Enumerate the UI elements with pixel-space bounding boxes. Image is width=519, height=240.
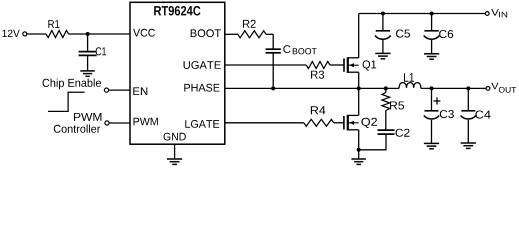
wire BOOT pin to R2	[225, 33, 238, 35]
label R4	[311, 106, 326, 114]
pin label GND	[164, 133, 186, 141]
node junction R5 top	[384, 86, 388, 90]
label Q1	[363, 60, 377, 70]
wire L1 to VOUT terminal	[421, 87, 486, 89]
wire VOUT to C4	[467, 88, 469, 110]
resistor R5	[385, 88, 387, 92]
label Controller	[54, 125, 100, 133]
wire Q2 drain up to PHASE	[358, 88, 360, 115]
resistor R3	[306, 62, 330, 69]
plus polarity mark C3	[434, 100, 441, 102]
wire C5 to ground	[382, 40, 384, 53]
transistor Q2 (low-side N-MOSFET)	[344, 115, 359, 131]
wire CBOOT column upper	[272, 34, 274, 49]
label C6	[439, 30, 453, 38]
label Q2	[361, 118, 377, 128]
ground (Q2)	[351, 159, 366, 164]
wire C1 to ground	[87, 56, 89, 71]
capacitor C2	[378, 130, 395, 134]
wire VIN to C5	[382, 14, 384, 31]
ground (C5)	[375, 53, 390, 58]
ground (C4)	[461, 143, 476, 148]
terminal 12V	[23, 32, 27, 36]
wire 12V to R1	[27, 33, 46, 35]
label C5	[396, 30, 410, 38]
capacitor C6 (polarized)	[424, 31, 440, 39]
label C1	[96, 47, 106, 55]
label R3	[311, 71, 324, 79]
capacitor C3 (polarized)	[424, 111, 439, 119]
label VOUT	[491, 83, 498, 90]
terminal EN	[104, 88, 108, 92]
pin label PHASE	[184, 84, 219, 92]
node junction Q1/Q2/PHASE	[357, 86, 361, 90]
node junction C5 top	[381, 12, 385, 16]
pin label EN	[133, 87, 147, 95]
wire C6 to ground	[431, 40, 433, 54]
label Chip Enable	[43, 79, 101, 90]
IC title RT9624C	[154, 6, 200, 16]
resistor R1	[46, 31, 69, 38]
wire PHASE pin to L1	[225, 87, 399, 89]
capacitor C5 (polarized)	[375, 31, 391, 39]
wire R4 to Q2 gate	[334, 122, 344, 124]
chip-enable step waveform	[48, 92, 85, 111]
transistor Q1 (high-side N-MOSFET)	[344, 57, 359, 73]
ground (C3)	[424, 143, 439, 148]
wire PWM terminal to PWM pin	[109, 122, 130, 124]
wire UGATE pin to R3	[225, 64, 306, 66]
ground (IC GND)	[167, 159, 182, 164]
label C_BOOT	[283, 45, 290, 53]
label R1	[48, 20, 59, 28]
node junction C3 top	[430, 86, 434, 90]
terminal PWM	[105, 121, 109, 125]
wire C3 to ground	[431, 120, 433, 143]
label R2	[243, 20, 256, 28]
terminal VOUT	[486, 87, 490, 91]
wire VIN rail	[359, 13, 486, 15]
wire Q2 source down to ground node	[358, 130, 360, 159]
wire EN terminal to EN pin	[109, 89, 130, 91]
ground (C1)	[80, 71, 95, 76]
label C4	[475, 111, 490, 119]
label C2	[396, 129, 410, 137]
wire GND pin stub	[174, 144, 176, 159]
wire node down to C1	[87, 34, 89, 51]
wire Q1 source down to PHASE	[358, 72, 360, 88]
wire C4 to ground	[467, 120, 469, 143]
pin label UGATE	[184, 61, 221, 69]
node junction CBOOT/PHASE	[271, 86, 275, 90]
wire R1 to VCC pin	[69, 33, 130, 35]
label C3	[440, 110, 454, 118]
wire LGATE pin to R4	[225, 122, 304, 124]
wire R5 to C2	[385, 111, 387, 130]
wire VOUT to C3	[431, 88, 433, 110]
label PWM (controller)	[74, 113, 101, 121]
capacitor C4 (polarized)	[461, 111, 476, 119]
resistor R4	[304, 119, 334, 126]
pin label LGATE	[185, 120, 219, 128]
wire R3 to Q1 gate	[330, 64, 344, 66]
node junction C4 top	[466, 86, 470, 90]
inductor L1	[399, 83, 421, 89]
label 12V	[2, 30, 19, 37]
wire VIN to C6	[431, 14, 433, 31]
pin label BOOT	[191, 29, 221, 37]
node junction Q2 source/C2 return	[357, 148, 361, 152]
label VIN	[491, 9, 499, 16]
label R5	[390, 102, 404, 110]
pin label PWM (inside box)	[134, 118, 158, 126]
resistor R2	[238, 31, 266, 38]
wire C2 bottom to Q2 source node	[359, 135, 386, 150]
node junction VCC/C1	[86, 32, 90, 36]
label L1	[404, 73, 414, 82]
wire R2 to CBOOT column	[266, 33, 273, 35]
node junction C6 top	[430, 12, 434, 16]
wire CBOOT column lower to PHASE	[272, 53, 274, 88]
op-amp-style IC U1 RT9624C box	[130, 2, 225, 144]
capacitor CBOOT	[266, 49, 281, 53]
terminal VIN	[485, 12, 489, 16]
pin label VCC	[133, 29, 155, 37]
wire Q1 drain up to VIN rail	[358, 14, 360, 58]
capacitor C1	[79, 52, 97, 56]
ground (C6)	[424, 54, 439, 59]
